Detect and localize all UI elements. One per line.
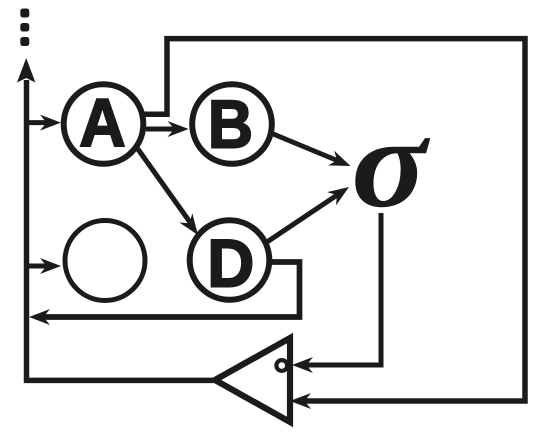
inverter bubble [276,360,287,371]
wire: dotted continuation above input rail [20,9,29,47]
wire: rail branch into blank node [27,264,51,269]
svg-text:B: B [208,86,253,162]
wire: D to sigma [267,192,341,242]
wire: D loop back to rail [39,262,300,317]
blank node [65,221,145,301]
wire: A to D [135,145,192,225]
svg-text:σ: σ [351,92,430,235]
node D [190,220,270,300]
wire: A to B [146,127,180,132]
wire: B to sigma [272,134,342,163]
node B [192,84,272,164]
wire: sigma down into inverter bubble [300,213,381,365]
svg-text:A: A [79,85,125,161]
node A [64,84,144,164]
wire: rail branch into node A [27,120,51,125]
wire: inverter output feeding left input rail (up arrow) [27,80,216,380]
wire: A top feedback through right border into inverter [143,39,525,401]
svg-text:D: D [207,226,254,302]
inverter triangle [215,338,290,422]
